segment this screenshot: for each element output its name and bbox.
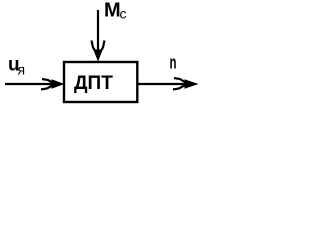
torque arrowhead barb right [99, 41, 105, 55]
svg-text:я: я [18, 62, 26, 78]
block ДПТ (DC motor) [64, 62, 137, 102]
torque arrowhead tip [93, 50, 102, 62]
wire: load torque input line (vertical) [97, 10, 99, 53]
input arrowhead barb lower [41, 85, 54, 90]
wire: armature voltage input line [5, 83, 53, 85]
svg-text:n: n [170, 52, 177, 72]
svg-text:ДПТ: ДПТ [74, 73, 113, 94]
output arrowhead barb lower [173, 85, 186, 90]
svg-text:M: M [104, 0, 121, 22]
wire: speed output line [138, 83, 186, 85]
torque arrowhead barb left [92, 41, 98, 55]
input arrowhead barb upper [42, 79, 55, 84]
svg-text:с: с [120, 6, 127, 22]
input arrowhead tip [52, 79, 65, 88]
output arrowhead barb upper [174, 78, 187, 84]
output arrowhead tip [185, 79, 199, 88]
